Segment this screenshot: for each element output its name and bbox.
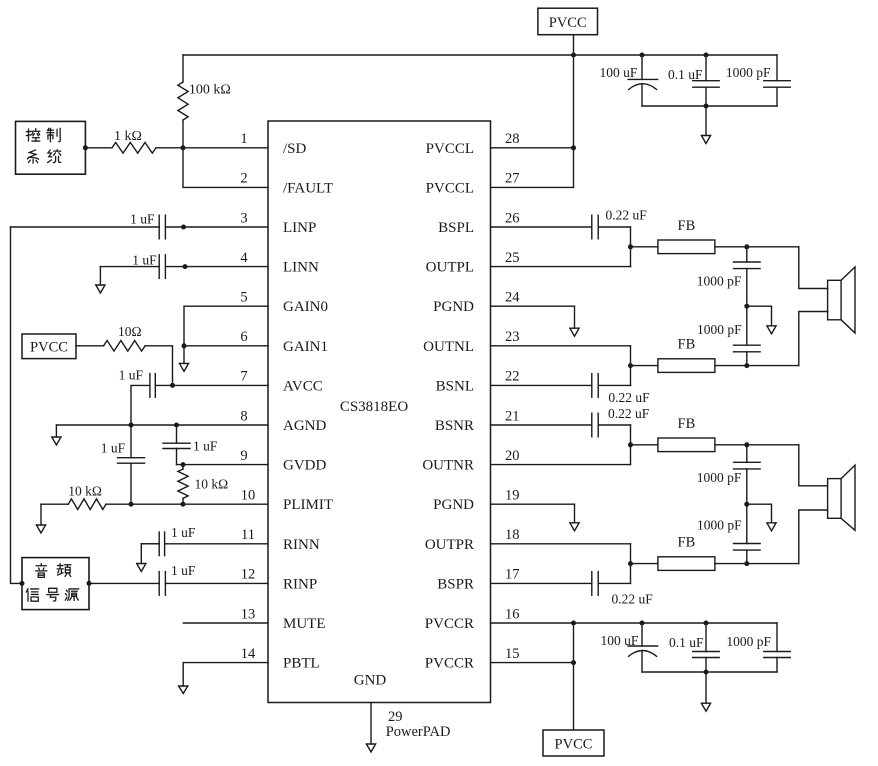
svg-text:27: 27 bbox=[505, 171, 520, 187]
svg-text:4: 4 bbox=[240, 250, 248, 266]
svg-text:PVCCL: PVCCL bbox=[426, 180, 474, 196]
svg-text:6: 6 bbox=[240, 329, 247, 345]
svg-text:9: 9 bbox=[240, 448, 247, 464]
svg-text:OUTNL: OUTNL bbox=[423, 339, 474, 355]
svg-text:PBTL: PBTL bbox=[283, 656, 320, 672]
svg-text:1: 1 bbox=[240, 131, 247, 147]
svg-text:FB: FB bbox=[678, 337, 696, 353]
svg-text:21: 21 bbox=[505, 408, 520, 424]
svg-text:BSNR: BSNR bbox=[435, 418, 474, 434]
svg-text:10: 10 bbox=[241, 488, 256, 504]
svg-text:1000 pF: 1000 pF bbox=[697, 322, 742, 337]
svg-text:1 uF: 1 uF bbox=[171, 525, 196, 540]
svg-text:PLIMIT: PLIMIT bbox=[283, 497, 333, 513]
svg-text:BSNL: BSNL bbox=[436, 378, 474, 394]
svg-text:PVCCR: PVCCR bbox=[425, 616, 474, 632]
svg-text:PGND: PGND bbox=[433, 497, 474, 513]
svg-text:0.22 uF: 0.22 uF bbox=[608, 406, 650, 421]
svg-text:1000 pF: 1000 pF bbox=[726, 634, 771, 649]
svg-text:14: 14 bbox=[241, 646, 256, 662]
svg-text:20: 20 bbox=[505, 448, 520, 464]
svg-text:GVDD: GVDD bbox=[283, 458, 326, 474]
svg-text:1000 pF: 1000 pF bbox=[697, 274, 742, 289]
svg-text:LINN: LINN bbox=[283, 260, 319, 276]
svg-text:GAIN1: GAIN1 bbox=[283, 339, 328, 355]
svg-text:AGND: AGND bbox=[283, 418, 326, 434]
svg-text:10 kΩ: 10 kΩ bbox=[68, 484, 102, 499]
svg-text:0.22 uF: 0.22 uF bbox=[606, 207, 648, 222]
svg-text:100 kΩ: 100 kΩ bbox=[189, 83, 231, 98]
svg-text:24: 24 bbox=[505, 290, 520, 306]
svg-text:18: 18 bbox=[505, 527, 520, 543]
svg-text:17: 17 bbox=[505, 567, 520, 583]
svg-text:12: 12 bbox=[241, 567, 256, 583]
svg-text:FB: FB bbox=[678, 218, 696, 234]
svg-text:PVCC: PVCC bbox=[555, 737, 593, 753]
svg-text:GAIN0: GAIN0 bbox=[283, 299, 328, 315]
svg-text:BSPL: BSPL bbox=[438, 220, 474, 236]
svg-text:29: 29 bbox=[388, 709, 403, 725]
svg-text:MUTE: MUTE bbox=[283, 616, 326, 632]
svg-text:PVCC: PVCC bbox=[30, 339, 68, 355]
svg-text:1 uF: 1 uF bbox=[130, 212, 155, 227]
svg-text:OUTNR: OUTNR bbox=[422, 458, 474, 474]
svg-text:1 uF: 1 uF bbox=[132, 253, 157, 268]
svg-text:2: 2 bbox=[240, 171, 247, 187]
svg-text:0.1 uF: 0.1 uF bbox=[669, 635, 704, 650]
svg-text:10 kΩ: 10 kΩ bbox=[195, 477, 229, 492]
svg-text:23: 23 bbox=[505, 329, 520, 345]
svg-text:PVCCR: PVCCR bbox=[425, 656, 474, 672]
svg-text:RINP: RINP bbox=[283, 576, 317, 592]
svg-text:10Ω: 10Ω bbox=[118, 324, 142, 339]
svg-text:1000 pF: 1000 pF bbox=[697, 470, 742, 485]
svg-text:/SD: /SD bbox=[283, 141, 307, 157]
svg-text:RINN: RINN bbox=[283, 537, 320, 553]
svg-text:100 uF: 100 uF bbox=[601, 633, 639, 648]
svg-text:1 uF: 1 uF bbox=[101, 441, 126, 456]
svg-text:1 uF: 1 uF bbox=[193, 439, 218, 454]
svg-text:1000 pF: 1000 pF bbox=[697, 518, 742, 533]
svg-text:PowerPAD: PowerPAD bbox=[386, 724, 451, 740]
svg-text:7: 7 bbox=[240, 369, 247, 385]
svg-text:AVCC: AVCC bbox=[283, 378, 323, 394]
svg-text:0.22 uF: 0.22 uF bbox=[612, 591, 654, 606]
svg-text:28: 28 bbox=[505, 131, 520, 147]
svg-text:16: 16 bbox=[505, 606, 520, 622]
svg-text:25: 25 bbox=[505, 250, 520, 266]
svg-text:OUTPR: OUTPR bbox=[425, 537, 474, 553]
svg-text:FB: FB bbox=[678, 535, 696, 551]
svg-text:5: 5 bbox=[240, 290, 247, 306]
svg-text:1 kΩ: 1 kΩ bbox=[114, 129, 142, 144]
svg-text:8: 8 bbox=[240, 408, 247, 424]
svg-text:26: 26 bbox=[505, 210, 520, 226]
svg-text:1 uF: 1 uF bbox=[119, 367, 144, 382]
svg-text:13: 13 bbox=[241, 606, 256, 622]
svg-text:1000 pF: 1000 pF bbox=[726, 65, 771, 80]
svg-text:/FAULT: /FAULT bbox=[283, 180, 333, 196]
svg-text:OUTPL: OUTPL bbox=[426, 260, 474, 276]
svg-text:FB: FB bbox=[678, 416, 696, 432]
svg-text:100 uF: 100 uF bbox=[600, 65, 638, 80]
svg-text:0.1 uF: 0.1 uF bbox=[668, 67, 703, 82]
svg-text:GND: GND bbox=[354, 673, 387, 689]
svg-text:PVCCL: PVCCL bbox=[426, 141, 474, 157]
svg-text:CS3818EO: CS3818EO bbox=[340, 399, 409, 415]
svg-text:22: 22 bbox=[505, 369, 520, 385]
svg-text:19: 19 bbox=[505, 488, 520, 504]
svg-text:BSPR: BSPR bbox=[437, 576, 474, 592]
svg-text:LINP: LINP bbox=[283, 220, 316, 236]
svg-text:PGND: PGND bbox=[433, 299, 474, 315]
svg-text:3: 3 bbox=[240, 210, 247, 226]
svg-text:1 uF: 1 uF bbox=[171, 563, 196, 578]
svg-text:PVCC: PVCC bbox=[549, 15, 587, 31]
svg-text:15: 15 bbox=[505, 646, 520, 662]
svg-text:0.22 uF: 0.22 uF bbox=[608, 390, 650, 405]
svg-text:11: 11 bbox=[241, 527, 255, 543]
